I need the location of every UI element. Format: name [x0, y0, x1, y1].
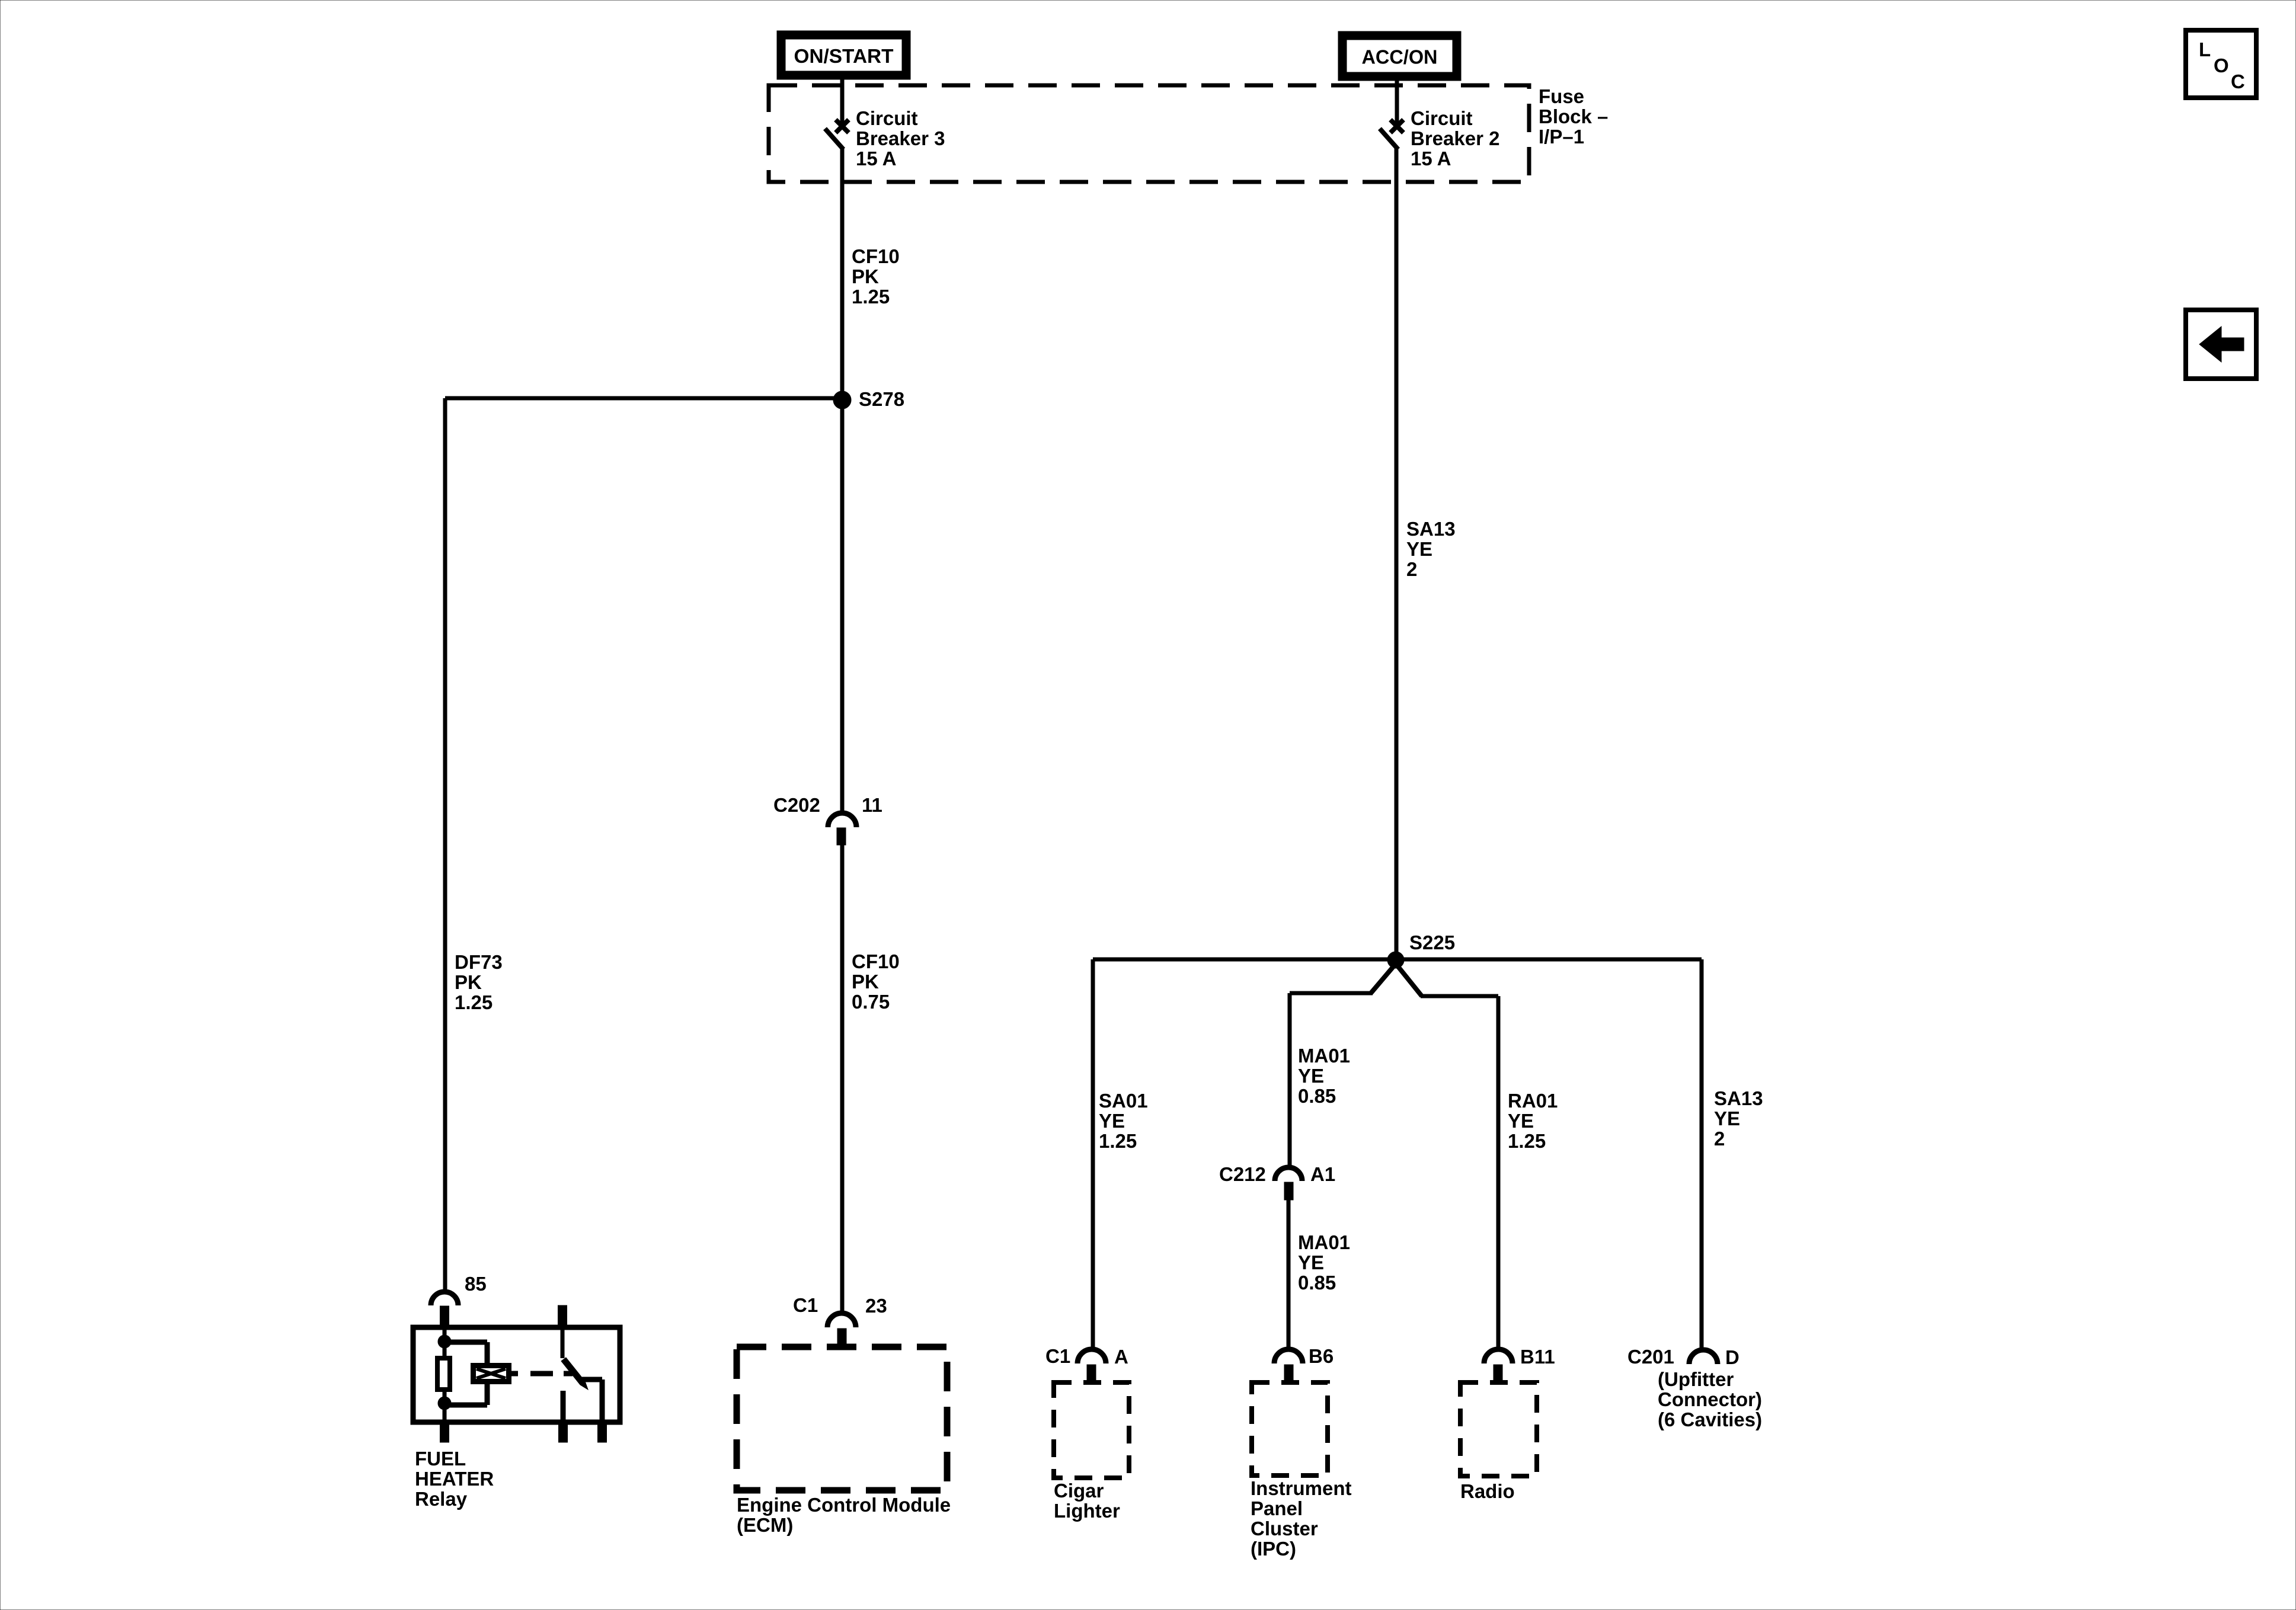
svg-text:C201: C201: [1627, 1346, 1674, 1368]
svg-text:(6 Cavities): (6 Cavities): [1658, 1409, 1762, 1430]
svg-text:1.25: 1.25: [1508, 1130, 1546, 1152]
svg-text:YE: YE: [1298, 1065, 1324, 1087]
svg-text:SA13: SA13: [1714, 1087, 1763, 1109]
svg-text:O: O: [2214, 55, 2229, 76]
svg-text:15 A: 15 A: [1411, 148, 1451, 169]
svg-text:Radio: Radio: [1460, 1480, 1515, 1502]
svg-text:Circuit: Circuit: [856, 107, 918, 129]
svg-text:CF10: CF10: [852, 245, 900, 267]
svg-text:1.25: 1.25: [852, 286, 890, 308]
svg-text:S278: S278: [859, 388, 904, 410]
svg-text:I/P–1: I/P–1: [1539, 126, 1584, 148]
svg-text:YE: YE: [1099, 1110, 1125, 1132]
svg-text:2: 2: [1714, 1128, 1725, 1150]
svg-text:ACC/ON: ACC/ON: [1362, 46, 1438, 68]
svg-text:C1: C1: [1045, 1345, 1070, 1367]
svg-text:MA01: MA01: [1298, 1231, 1350, 1253]
svg-text:Panel: Panel: [1251, 1497, 1303, 1519]
svg-text:Breaker 2: Breaker 2: [1411, 127, 1499, 149]
svg-text:Engine Control Module: Engine Control Module: [737, 1494, 951, 1516]
svg-text:RA01: RA01: [1508, 1090, 1558, 1112]
svg-text:C: C: [2231, 71, 2245, 92]
svg-text:Lighter: Lighter: [1054, 1500, 1120, 1522]
svg-text:D: D: [1725, 1346, 1739, 1368]
svg-text:Breaker 3: Breaker 3: [856, 127, 945, 149]
svg-text:Cluster: Cluster: [1251, 1518, 1318, 1539]
svg-text:11: 11: [862, 794, 882, 816]
svg-text:Block –: Block –: [1539, 105, 1608, 127]
svg-text:S225: S225: [1409, 932, 1455, 953]
svg-text:Fuse: Fuse: [1539, 85, 1584, 107]
svg-text:1.25: 1.25: [455, 991, 493, 1013]
svg-text:L: L: [2199, 39, 2211, 60]
svg-text:MA01: MA01: [1298, 1045, 1350, 1067]
svg-text:CF10: CF10: [852, 950, 900, 972]
svg-text:A1: A1: [1310, 1163, 1335, 1185]
svg-text:HEATER: HEATER: [415, 1468, 494, 1490]
svg-text:ON/START: ON/START: [794, 45, 894, 67]
svg-text:YE: YE: [1508, 1110, 1534, 1132]
svg-text:PK: PK: [852, 265, 879, 287]
svg-text:(ECM): (ECM): [737, 1514, 793, 1536]
svg-text:Instrument: Instrument: [1251, 1477, 1352, 1499]
svg-text:C212: C212: [1219, 1163, 1266, 1185]
svg-text:SA01: SA01: [1099, 1090, 1148, 1112]
svg-text:FUEL: FUEL: [415, 1448, 466, 1470]
svg-text:Cigar: Cigar: [1054, 1480, 1104, 1502]
svg-text:B11: B11: [1520, 1346, 1555, 1368]
svg-text:Connector): Connector): [1658, 1388, 1762, 1410]
svg-text:Circuit: Circuit: [1411, 107, 1473, 129]
svg-text:85: 85: [465, 1273, 487, 1295]
svg-text:DF73: DF73: [455, 951, 503, 973]
svg-text:23: 23: [865, 1295, 887, 1317]
svg-text:YE: YE: [1714, 1108, 1740, 1129]
svg-text:PK: PK: [455, 971, 482, 993]
svg-text:15 A: 15 A: [856, 148, 896, 169]
svg-text:0.75: 0.75: [852, 991, 890, 1013]
svg-text:YE: YE: [1298, 1251, 1324, 1273]
svg-text:1.25: 1.25: [1099, 1130, 1137, 1152]
svg-text:C1: C1: [793, 1294, 818, 1316]
svg-text:(IPC): (IPC): [1251, 1538, 1296, 1560]
svg-text:C202: C202: [773, 794, 820, 816]
svg-text:PK: PK: [852, 971, 879, 993]
svg-text:2: 2: [1406, 558, 1417, 580]
svg-text:Relay: Relay: [415, 1488, 468, 1510]
svg-text:A: A: [1114, 1346, 1128, 1368]
svg-text:B6: B6: [1309, 1345, 1334, 1367]
svg-text:SA13: SA13: [1406, 518, 1456, 540]
svg-text:0.85: 0.85: [1298, 1272, 1336, 1294]
svg-text:0.85: 0.85: [1298, 1085, 1336, 1107]
svg-text:(Upfitter: (Upfitter: [1658, 1368, 1734, 1390]
svg-text:YE: YE: [1406, 538, 1432, 560]
